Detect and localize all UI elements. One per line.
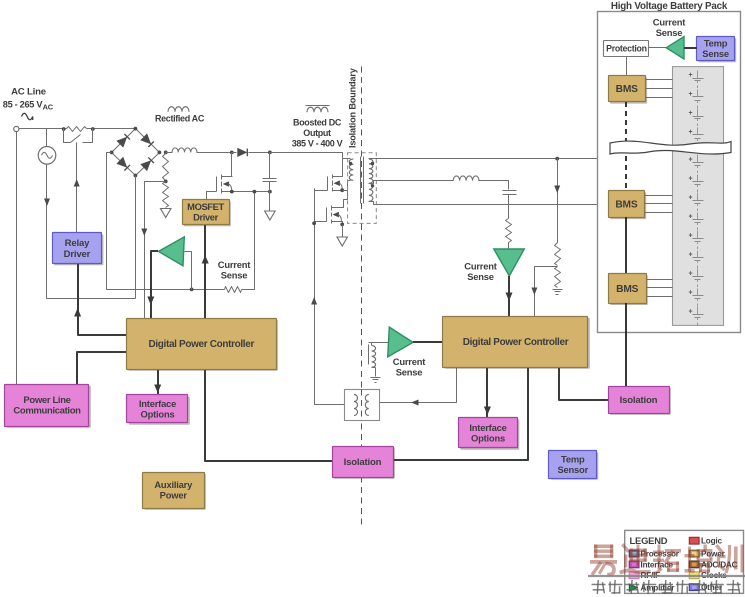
svg-text:+: + xyxy=(689,156,693,163)
High Voltage Battery Pack enclosure xyxy=(598,12,741,333)
wire BMS2 to BMS3 xyxy=(625,217,627,274)
wire Protection to BMS1 xyxy=(626,57,628,76)
svg-text:Driver: Driver xyxy=(64,249,91,260)
arrow down U1 output xyxy=(147,297,154,306)
svg-text:Current: Current xyxy=(393,356,426,367)
wire U2 output to controller xyxy=(508,276,510,316)
node relay right xyxy=(91,127,95,131)
node bridge left xyxy=(110,151,114,155)
svg-text:Current: Current xyxy=(464,261,497,272)
inductor L1 xyxy=(166,152,173,154)
diode D1 top-left xyxy=(116,137,127,148)
inductor symbol annotation (rectified) xyxy=(168,107,189,112)
node secondary divider tap top xyxy=(555,157,559,161)
svg-text:Sense: Sense xyxy=(656,27,683,38)
arrow up relay control xyxy=(74,308,81,317)
watermark big characters xyxy=(594,545,613,549)
svg-text:+: + xyxy=(689,110,693,117)
block Temp Sensor xyxy=(551,452,599,480)
wire AC source return xyxy=(47,165,136,299)
svg-text:Protection: Protection xyxy=(606,43,647,53)
legend swatch Power xyxy=(689,550,699,557)
wire Q1 gate to driver xyxy=(207,192,217,200)
legend swatch Other xyxy=(689,584,699,591)
legend swatch ADC/DAC xyxy=(689,561,699,568)
svg-text:High Voltage Battery Pack: High Voltage Battery Pack xyxy=(611,1,728,12)
svg-text:+: + xyxy=(689,251,693,258)
diode D5 boost xyxy=(232,152,237,154)
node boost output xyxy=(268,151,272,155)
ground CT xyxy=(371,377,381,379)
legend box xyxy=(625,530,744,593)
svg-text:+: + xyxy=(689,270,693,277)
svg-text:Digital Power Controller: Digital Power Controller xyxy=(148,339,254,350)
node T1 secondary dot lower xyxy=(371,184,374,187)
wire C2 to sense resistor xyxy=(508,195,510,219)
wire U1 output to controller xyxy=(151,251,158,318)
AC sine annotation symbol xyxy=(22,113,33,120)
svg-text:+: + xyxy=(689,72,693,79)
node sense loop top xyxy=(253,190,257,194)
inductor symbol annotation (boosted) xyxy=(307,107,328,112)
arrow down U2 output xyxy=(506,293,513,302)
svg-text:Isolation: Isolation xyxy=(344,457,382,468)
wire BMS1 to cells xyxy=(646,79,673,81)
svg-text:Rectified AC: Rectified AC xyxy=(155,114,205,124)
node bridge top xyxy=(134,127,138,131)
node AC input terminal xyxy=(14,126,19,131)
watermark small text xyxy=(592,580,741,594)
op-amp U3 current sense (right) xyxy=(388,327,413,357)
svg-text:AC: AC xyxy=(43,103,54,112)
wire secondary top rail xyxy=(369,158,598,160)
node Q1 source xyxy=(230,190,234,194)
node half-bridge midpoint xyxy=(340,188,344,192)
block Power Line Communication xyxy=(7,386,91,428)
svg-text:Communication: Communication xyxy=(13,406,81,417)
svg-text:Sense: Sense xyxy=(396,367,423,378)
wire bridge bottom to AC return xyxy=(135,176,137,299)
legend swatch Amplifier xyxy=(629,584,637,592)
wire secondary bottom rail xyxy=(369,202,598,205)
svg-text:+: + xyxy=(689,129,693,136)
capacitor C2 output xyxy=(503,190,517,192)
node cap bottom xyxy=(268,190,272,194)
arrow left T2 drive xyxy=(411,400,419,406)
svg-text:Relay: Relay xyxy=(65,238,90,249)
svg-text:+: + xyxy=(689,308,693,315)
wire Temp Sense to U4 xyxy=(684,47,697,49)
inductor L2 output xyxy=(453,176,479,181)
wire controller 2 to interface options 2 xyxy=(486,367,488,418)
battery stack tear band xyxy=(610,141,731,154)
block Relay Driver xyxy=(54,235,103,266)
isolation boundary dashed line xyxy=(361,67,363,447)
wire Q3 source to return arrow xyxy=(342,225,344,237)
wire sense resistor to MOSFET source xyxy=(242,192,255,290)
legend swatch Processor xyxy=(629,550,639,557)
transistor Q3 half-bridge low xyxy=(331,206,333,211)
svg-text:Sense: Sense xyxy=(467,271,494,282)
svg-text:Current: Current xyxy=(218,259,251,270)
svg-text:+: + xyxy=(689,213,693,220)
svg-text:+: + xyxy=(689,289,693,296)
block Digital Power Controller 1 xyxy=(128,320,277,371)
diode D3 bottom-left xyxy=(116,157,127,168)
arrow down interface 1 xyxy=(154,385,161,394)
wire secondary mid rail xyxy=(369,181,454,184)
block Interface Options 2 xyxy=(460,419,519,450)
current transformer CT xyxy=(368,345,370,365)
svg-text:Driver: Driver xyxy=(193,212,218,223)
block MOSFET Driver xyxy=(184,201,231,226)
svg-text:Digital Power Controller: Digital Power Controller xyxy=(463,337,569,348)
wire HV bus to half bridge xyxy=(270,153,343,177)
wire bridge negative return xyxy=(107,153,225,290)
wire midpoint to primary xyxy=(343,181,351,191)
wire divider right vertical xyxy=(557,159,559,243)
resistor current sense shunt R2 xyxy=(225,287,242,293)
svg-text:Interface: Interface xyxy=(469,422,506,433)
block Temp Sense xyxy=(699,38,737,62)
transformer T1 core xyxy=(360,157,362,204)
isolation boundary through T2 xyxy=(361,390,363,421)
return arrow divider xyxy=(160,209,171,218)
transformer T2 gate drive xyxy=(345,390,380,421)
svg-text:85 - 265 V: 85 - 265 V xyxy=(3,100,44,110)
legend swatch Interface xyxy=(629,561,639,568)
wire Q3 source xyxy=(342,222,343,225)
wire Q1 source rail xyxy=(232,191,270,193)
return arrow output cap xyxy=(265,211,276,220)
node rectified bus xyxy=(164,151,168,155)
node bridge right xyxy=(158,151,162,155)
block Protection xyxy=(604,41,649,57)
svg-text:Auxiliary: Auxiliary xyxy=(154,479,193,490)
arrow down on divider feed xyxy=(141,229,147,237)
wire controller 1 to isolation xyxy=(205,369,332,461)
wire U4 to Protection xyxy=(649,47,667,49)
arrow up gate line xyxy=(202,255,209,264)
wire Q3 gate xyxy=(315,221,327,223)
svg-text:Power: Power xyxy=(160,490,188,501)
transformer T1 secondary lower xyxy=(369,183,373,201)
arrow down right divider xyxy=(554,186,560,194)
node divider tap xyxy=(164,180,168,184)
svg-text:Power Line: Power Line xyxy=(23,395,70,406)
svg-text:Isolation: Isolation xyxy=(620,395,658,406)
svg-text:BMS: BMS xyxy=(616,84,638,95)
wire CT to U3 xyxy=(369,342,389,344)
svg-text:Sense: Sense xyxy=(221,270,248,281)
svg-text:+: + xyxy=(689,194,693,201)
svg-text:Output: Output xyxy=(303,128,331,138)
watermark divider line xyxy=(588,575,745,577)
resistor R5 sense xyxy=(506,219,512,243)
wire gate drive net xyxy=(315,189,345,405)
resistor divider lower R4 xyxy=(163,182,169,208)
battery cells column xyxy=(689,71,704,327)
wire T2 secondary to controller 2 xyxy=(380,367,457,403)
transformer T1 secondary upper xyxy=(369,159,373,183)
legend swatch RF/IF xyxy=(629,572,639,579)
block BMS 1 xyxy=(610,77,647,103)
wire controller 2 to isolation 2 xyxy=(559,367,608,400)
svg-text:MOSFET: MOSFET xyxy=(187,201,224,212)
wire midpoint to Q3 drain xyxy=(342,191,348,208)
op-amp U4 battery current sense (left) xyxy=(666,37,684,60)
node bridge bottom xyxy=(134,174,138,178)
svg-text:+: + xyxy=(689,175,693,182)
wire U3 output to controller xyxy=(413,341,443,343)
svg-text:BMS: BMS xyxy=(616,284,638,295)
return arrow half bridge xyxy=(337,237,348,246)
wire BMS2 to cells xyxy=(645,195,673,197)
resistor divider upper R3 xyxy=(163,154,169,181)
svg-text:Temp: Temp xyxy=(561,453,585,464)
wire AC top line right xyxy=(93,128,136,130)
transformer T1 primary winding xyxy=(349,159,353,180)
diode D2 top-right xyxy=(140,133,151,144)
svg-text:Logic: Logic xyxy=(701,537,722,546)
node T1 secondary dot upper xyxy=(371,162,374,165)
ground divider xyxy=(553,289,563,291)
node boost switch drain xyxy=(230,151,234,155)
wire AC neutral to PLC xyxy=(16,132,18,385)
block Interface Options 1 xyxy=(129,397,190,425)
AC source V1 xyxy=(46,129,48,147)
svg-text:Temp: Temp xyxy=(704,37,728,48)
svg-text:Options: Options xyxy=(140,409,174,420)
wire BMS3 to cells xyxy=(647,279,673,281)
arrow down divider tap 2 xyxy=(531,288,537,296)
wire MOSFET driver gate line xyxy=(204,225,206,318)
wire AC top line left xyxy=(19,128,64,130)
svg-text:Boosted DC: Boosted DC xyxy=(293,118,342,128)
wire controller 2 to isolation 1 xyxy=(393,367,528,460)
diode D4 bottom-right xyxy=(140,160,151,171)
svg-text:BMS: BMS xyxy=(615,200,637,211)
op-amp U2 current sense (down) xyxy=(494,249,525,276)
svg-text:Isolation Boundary: Isolation Boundary xyxy=(348,67,358,148)
legend swatch Logic xyxy=(689,537,699,544)
wire BMS3 to Isolation 2 xyxy=(625,303,627,386)
resistor R7 divider lower xyxy=(555,267,561,288)
wire BMS1 to BMS2 dashed xyxy=(625,102,627,191)
block BMS 3 xyxy=(610,275,648,305)
transistor Q2 half-bridge high xyxy=(332,175,334,179)
node gate net xyxy=(312,221,316,225)
bridge rectifier frame xyxy=(112,129,160,176)
wire controller to interface options xyxy=(157,369,159,395)
block BMS 2 xyxy=(610,192,646,219)
wire relay driver to controller xyxy=(78,263,126,335)
svg-text:Current: Current xyxy=(653,17,686,28)
resistor relay bypass xyxy=(64,128,67,130)
svg-text:+: + xyxy=(689,91,693,98)
wire primary top link xyxy=(343,158,351,160)
battery stack box xyxy=(673,67,724,326)
block Isolation 2 xyxy=(610,388,671,415)
svg-text:Sense: Sense xyxy=(702,48,729,59)
transformer T1 dashed outline xyxy=(348,153,377,224)
node relay left xyxy=(62,127,66,131)
op-amp U1 current sense (left) xyxy=(159,237,185,266)
transistor Q1 boost MOSFET xyxy=(231,153,233,177)
svg-text:Options: Options xyxy=(471,432,505,443)
wire divider tap to controller 2 xyxy=(535,267,558,317)
wire relay coil to Relay Driver xyxy=(76,143,78,233)
svg-text:Sensor: Sensor xyxy=(557,464,588,475)
svg-text:+: + xyxy=(689,232,693,239)
svg-text:AC Line: AC Line xyxy=(11,87,46,98)
arrow up gate drive xyxy=(311,297,317,305)
arrow down on AC return xyxy=(44,199,50,207)
wire L2 to cap xyxy=(479,181,509,190)
svg-text:Interface: Interface xyxy=(139,398,176,409)
wire cap return to ground arrow xyxy=(269,192,271,211)
block Isolation 1 xyxy=(334,448,395,479)
arrow down interface 2 xyxy=(484,407,491,416)
wire U1 input xyxy=(185,252,192,290)
arrow up on relay wire xyxy=(74,179,80,187)
wire Q2 gate xyxy=(315,190,328,192)
node Q3 source xyxy=(340,223,344,227)
capacitor C1 bulk xyxy=(269,153,271,179)
wire PLC to controller xyxy=(77,352,126,384)
isolation boundary dashed line lower segment xyxy=(361,477,363,529)
wire divider tap to controller xyxy=(145,182,166,319)
relay contact switch xyxy=(64,129,71,143)
resistor R6 divider upper xyxy=(555,243,561,266)
block Digital Power Controller 2 xyxy=(445,318,590,369)
node T1 primary dot xyxy=(349,162,352,165)
svg-text:LEGEND: LEGEND xyxy=(630,535,668,546)
node sense tap xyxy=(190,288,194,292)
block Auxiliary Power xyxy=(144,474,206,510)
svg-text:385 V - 400 V: 385 V - 400 V xyxy=(292,139,343,149)
legend swatch Clocks xyxy=(689,572,699,579)
